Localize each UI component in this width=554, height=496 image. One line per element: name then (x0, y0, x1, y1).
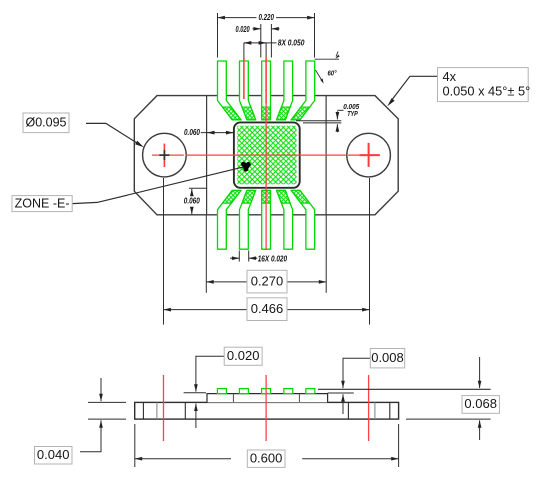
dimension 0.040 side (body thickness) (80, 378, 126, 452)
svg-text:Ø0.095: Ø0.095 (25, 116, 66, 130)
label box ZONE -E- (12, 196, 72, 212)
red horizontal centerline (152, 154, 380, 156)
svg-text:8X 0.050: 8X 0.050 (278, 39, 305, 48)
label box dia 0.095 (23, 113, 69, 133)
svg-text:0.060: 0.060 (184, 128, 200, 137)
dimension 0.220 (218, 13, 315, 58)
dimension 16X 0.020 (bottom lead width) (230, 251, 257, 262)
side chamfer line left (156, 402, 158, 419)
leader ZONE -E- (72, 167, 243, 204)
svg-text:0.466: 0.466 (251, 301, 284, 316)
dimension 0.060 top (tab line to die pad) (201, 132, 234, 134)
lead L5 (top) (291, 61, 315, 120)
svg-text:ZONE -E-: ZONE -E- (15, 196, 70, 210)
mounting hole left (143, 133, 187, 177)
dimension 0.068 side (overall height) (406, 357, 491, 440)
feet top extension line (318, 388, 491, 390)
side chamfer line right (374, 402, 376, 419)
svg-text:0.020: 0.020 (227, 348, 260, 363)
lead L2 (top) (240, 61, 256, 120)
lead L10 (bottom) (240, 190, 256, 249)
side raised tab (207, 394, 328, 403)
label box 0.020 side (224, 347, 262, 365)
leader 4x chamfer (387, 76, 437, 106)
tab top extension line (328, 392, 354, 394)
lead L11 (bottom) (262, 190, 271, 249)
svg-text:TYP: TYP (347, 109, 358, 118)
dimension 60 deg (lead bend angle) (315, 52, 339, 82)
side lead feet (217, 389, 226, 394)
svg-text:16X 0.020: 16X 0.020 (258, 255, 288, 264)
red crosshair left hole (163, 144, 165, 167)
svg-text:4x: 4x (443, 69, 457, 84)
dimension 0.600 (overall width) (135, 424, 399, 467)
label box 0.040 side (35, 447, 73, 465)
label box 0.466 (247, 298, 287, 321)
red crosshair right hole (360, 143, 380, 167)
dimension 0.005 TYP (foot to die gap) (296, 110, 344, 132)
red vertical centerline center (265, 58, 267, 251)
tab edge line left (206, 96, 208, 215)
side hole edge lines left (143, 402, 185, 419)
dimension 0.466 (hole centers) (164, 178, 370, 325)
dimension 0.060 bottom (die pad to package edge) (189, 188, 207, 214)
red centerline lead 2 (243, 58, 245, 100)
label box 0.270 (247, 270, 287, 293)
dimension 0.020 (lead width) (253, 24, 280, 58)
zone E target dot (241, 162, 251, 172)
svg-text:0.060: 0.060 (184, 197, 200, 206)
lead L4 (top) (277, 61, 293, 120)
leader dia 0.095 (86, 123, 144, 147)
lead L9 (bottom) (218, 190, 242, 249)
side body (135, 402, 399, 419)
label box 0.600 (247, 450, 285, 467)
svg-text:0.270: 0.270 (251, 273, 284, 288)
lead L13 (bottom) (291, 190, 315, 249)
dimension 0.008 side (lead thickness) (343, 358, 370, 414)
package outline (octagon flange) (134, 96, 398, 215)
die pad crosshatch (237, 126, 296, 185)
tab edge line right (325, 96, 327, 215)
side red centerlines (164, 375, 369, 441)
svg-text:0.008: 0.008 (371, 350, 404, 365)
lead L12 (bottom) (277, 190, 293, 249)
label box 4x 0.050 x 45 (438, 68, 531, 102)
label box 0.068 side (462, 396, 499, 414)
lead L3 (top) (262, 61, 271, 120)
side tab inner edges (233, 394, 299, 402)
svg-text:0.040: 0.040 (37, 447, 70, 462)
dimension 8X 0.050 (lead pitch) (244, 43, 277, 58)
lead L1 (top) (218, 61, 242, 120)
side hole edge lines right (348, 402, 389, 419)
svg-text:0.050 x 45°± 5°: 0.050 x 45°± 5° (443, 83, 531, 98)
mounting hole right (347, 133, 391, 177)
dimension 0.020 side (tab height) (184, 356, 225, 428)
dimension 0.270 (tab width) (206, 216, 326, 293)
die pad outline (234, 122, 300, 187)
svg-text:60°: 60° (328, 68, 337, 77)
svg-text:0.020: 0.020 (236, 25, 250, 34)
svg-text:0.220: 0.220 (258, 13, 274, 22)
black cross left hole (159, 150, 169, 160)
svg-text:0.600: 0.600 (250, 450, 283, 465)
svg-text:0.068: 0.068 (464, 396, 497, 411)
label box 0.008 side (370, 349, 404, 368)
